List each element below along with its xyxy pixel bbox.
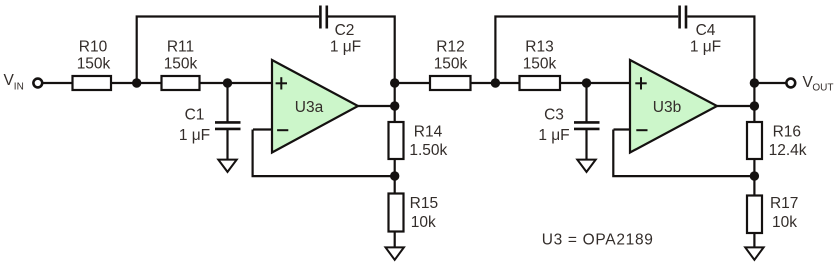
svg-text:R10: R10	[79, 39, 108, 56]
svg-text:12.4k: 12.4k	[769, 142, 807, 159]
svg-text:150k: 150k	[77, 56, 111, 73]
svg-text:C3: C3	[544, 107, 564, 124]
svg-text:C4: C4	[696, 22, 716, 39]
svg-text:R16: R16	[773, 123, 801, 140]
svg-text:IN: IN	[14, 82, 24, 93]
svg-text:1 μF: 1 μF	[538, 127, 569, 144]
svg-text:1.50k: 1.50k	[409, 142, 447, 159]
svg-text:150k: 150k	[523, 56, 557, 73]
svg-text:R14: R14	[414, 123, 443, 140]
svg-text:1 μF: 1 μF	[690, 39, 721, 56]
svg-text:1 μF: 1 μF	[330, 39, 361, 56]
svg-text:R17: R17	[770, 195, 798, 212]
svg-text:OUT: OUT	[812, 83, 833, 94]
svg-text:150k: 150k	[164, 56, 198, 73]
svg-text:10k: 10k	[772, 214, 797, 231]
svg-text:R15: R15	[410, 195, 438, 212]
svg-text:C2: C2	[335, 22, 355, 39]
svg-text:1 μF: 1 μF	[179, 127, 210, 144]
svg-text:U3a: U3a	[295, 99, 324, 116]
svg-text:U3b: U3b	[653, 99, 681, 116]
svg-text:R12: R12	[436, 39, 464, 56]
svg-text:10k: 10k	[411, 214, 436, 231]
svg-text:R11: R11	[167, 39, 194, 56]
svg-text:C1: C1	[185, 107, 205, 124]
svg-text:R13: R13	[525, 39, 553, 56]
svg-text:U3 = OPA2189: U3 = OPA2189	[542, 232, 654, 249]
svg-text:150k: 150k	[434, 56, 468, 73]
